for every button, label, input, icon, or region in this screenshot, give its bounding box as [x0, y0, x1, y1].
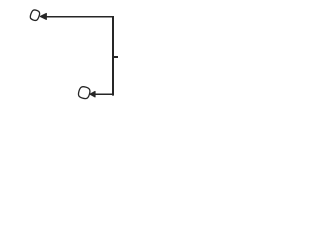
wire top horizontal: [46, 16, 115, 18]
wire bottom horizontal: [95, 94, 115, 96]
arrowhead into S2: [90, 92, 95, 97]
tick mark on vertical wire: [112, 56, 118, 58]
state node S1 (top ellipse): [29, 9, 40, 21]
background: [0, 0, 150, 109]
state node S2 (bottom ellipse): [77, 86, 91, 100]
wire vertical: [112, 16, 114, 96]
arrowhead into S1: [40, 14, 46, 20]
